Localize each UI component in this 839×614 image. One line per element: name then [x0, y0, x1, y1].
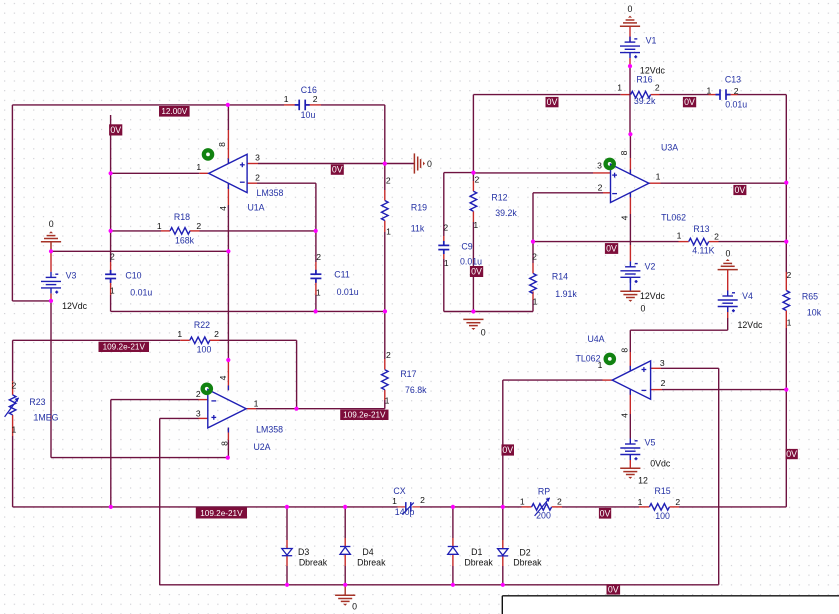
- svg-text:8: 8: [217, 142, 227, 147]
- svg-text:8: 8: [619, 348, 629, 353]
- lead U4A pin4: [629, 390, 631, 414]
- battery V5 0Vdc: [620, 439, 640, 461]
- lead U2A pin1 output: [246, 408, 256, 410]
- svg-text:1: 1: [177, 329, 182, 339]
- lead D1 bottom: [452, 555, 454, 567]
- svg-text:39.2k: 39.2k: [495, 208, 517, 218]
- svg-text:0.01u: 0.01u: [725, 99, 747, 109]
- svg-text:R23: R23: [29, 397, 45, 407]
- wire R18 pin1 side: [111, 230, 161, 232]
- svg-text:R15: R15: [655, 486, 671, 496]
- junction D3 bottom: [285, 583, 289, 587]
- junction U1A pin4 ground rail: [226, 249, 230, 253]
- svg-text:0.01u: 0.01u: [460, 257, 482, 267]
- wire y507 long rail west part: [13, 506, 398, 508]
- svg-text:0V: 0V: [606, 244, 617, 254]
- wire y241 0V rail: [533, 241, 679, 243]
- junction V3 bottom: [49, 299, 53, 303]
- wire C9 vertical: [443, 173, 445, 236]
- svg-text:3: 3: [196, 408, 201, 418]
- voltage label 0V bottom rail: [607, 584, 621, 594]
- lead V2 top: [629, 245, 631, 261]
- lead U4A pin2: [650, 389, 662, 391]
- junction D1 bottom: [451, 583, 455, 587]
- wire node to R19: [384, 164, 386, 190]
- svg-text:1: 1: [385, 396, 390, 406]
- svg-text:2: 2: [443, 223, 448, 233]
- wire U1A pin4 to U2A pin4: [227, 205, 229, 360]
- wire U1A pin2 right: [257, 182, 316, 184]
- battery V2 12Vdc: [620, 261, 640, 283]
- lead R16 pin2: [651, 94, 660, 96]
- voltage label 12.00V: [159, 106, 190, 117]
- svg-text:200: 200: [536, 511, 551, 521]
- svg-text:R65: R65: [802, 291, 818, 301]
- svg-text:2: 2: [661, 378, 666, 388]
- svg-text:CX: CX: [393, 486, 405, 496]
- wire D2 to bottom rail: [502, 566, 504, 585]
- lead U2A pin8: [227, 428, 229, 441]
- voltage label 0V U4A output net: [502, 444, 515, 455]
- resistor R17 76.8k: [382, 370, 389, 390]
- lead V1 bottom: [629, 58, 631, 66]
- wire R22 pin2 right: [220, 339, 297, 341]
- lead V2 bottom to ground: [629, 277, 631, 291]
- wire down to C11: [315, 183, 317, 262]
- svg-text:0V: 0V: [684, 97, 695, 107]
- junction D2 / U4A output: [501, 505, 505, 509]
- svg-text:U3A: U3A: [661, 142, 678, 152]
- svg-text:1: 1: [444, 258, 449, 268]
- svg-text:1: 1: [617, 82, 622, 92]
- lead D3 cathode: [286, 556, 288, 566]
- wire U3A output to right column: [661, 182, 787, 184]
- wire to D2: [502, 507, 504, 540]
- svg-text:1: 1: [196, 162, 201, 172]
- lead D4 bottom: [344, 554, 346, 566]
- wire output net down: [502, 380, 504, 507]
- svg-text:R17: R17: [400, 369, 416, 379]
- voltage label 0V top rail east: [683, 97, 696, 107]
- lead C13 pin1: [709, 94, 721, 96]
- svg-text:4: 4: [619, 413, 629, 418]
- overlay window corner bottom-right: [502, 596, 839, 614]
- svg-text:V1: V1: [646, 36, 657, 46]
- svg-text:2: 2: [110, 251, 115, 261]
- lead D2 cathode: [502, 556, 504, 566]
- resistor R65 10k: [783, 291, 790, 311]
- marker at U2A pin2: [203, 385, 211, 393]
- lead R18 pin1: [161, 230, 170, 232]
- lead U4A pin3: [650, 367, 661, 369]
- svg-text:Dbreak: Dbreak: [464, 557, 493, 567]
- svg-text:0V: 0V: [547, 97, 558, 107]
- marker at U3A pin3: [606, 160, 614, 168]
- svg-text:2: 2: [386, 350, 391, 360]
- wire R16 to C13: [660, 94, 709, 96]
- svg-text:1: 1: [677, 230, 682, 240]
- junction ground node y311: [471, 309, 475, 313]
- svg-text:1: 1: [12, 424, 17, 434]
- voltage label 109.2e-21V U2A out: [340, 410, 388, 420]
- svg-text:LM358: LM358: [256, 424, 283, 434]
- capacitor C16 10u: [295, 100, 310, 111]
- wire net-0V vertical at x110: [110, 115, 112, 262]
- svg-text:2: 2: [386, 175, 391, 185]
- svg-text:V4: V4: [742, 291, 753, 301]
- lead R19 pin1: [384, 221, 386, 233]
- lead D3 anode: [286, 540, 288, 549]
- wire U4A pin2 to right column: [662, 389, 786, 391]
- potentiometer RP 200: [532, 504, 552, 511]
- wire y457 to U2A pin8: [51, 457, 228, 459]
- voltage label 0V U1A pin3: [331, 164, 344, 174]
- lead C10 pin1: [110, 278, 112, 295]
- wire right column lower: [785, 328, 787, 507]
- potentiometer R23 1MEG: [9, 395, 16, 415]
- svg-text:R18: R18: [174, 212, 190, 222]
- svg-text:109.2e-21V: 109.2e-21V: [343, 411, 386, 420]
- resistor R22 100: [190, 337, 210, 344]
- svg-text:2: 2: [734, 86, 739, 96]
- wire ground rail y251: [51, 250, 228, 252]
- wire R23 pin1 down: [12, 436, 14, 507]
- svg-text:C9: C9: [461, 241, 472, 251]
- svg-text:U1A: U1A: [247, 203, 264, 213]
- lead R17 pin1: [384, 390, 386, 400]
- lead U1A pin4: [227, 183, 229, 205]
- U3A pin8 stub: [629, 170, 631, 175]
- svg-text:1MEG: 1MEG: [34, 412, 59, 422]
- wire pin2 net down: [110, 400, 112, 507]
- junction U3A pin8: [628, 132, 632, 136]
- svg-text:2: 2: [316, 252, 321, 262]
- svg-text:C13: C13: [725, 75, 741, 85]
- lead C16 pin2: [305, 104, 321, 106]
- svg-text:2: 2: [532, 252, 537, 262]
- junction U3A output right column: [784, 181, 788, 185]
- wire C9 branch top: [444, 172, 474, 174]
- lead U1A pin2: [247, 182, 257, 184]
- op-amp U2A LM358 triangle: [208, 390, 246, 428]
- lead V4 top from ground: [727, 270, 729, 291]
- svg-text:1: 1: [254, 398, 259, 408]
- svg-text:4.11K: 4.11K: [692, 245, 714, 255]
- ground V3 lead: [50, 242, 52, 252]
- capacitor C9 0.01u: [438, 241, 449, 254]
- wire D3 riser: [286, 507, 288, 540]
- svg-text:12Vdc: 12Vdc: [738, 320, 764, 330]
- lead C11 pin2: [315, 262, 317, 274]
- svg-text:0: 0: [725, 249, 730, 259]
- junction D3 top: [285, 505, 289, 509]
- svg-text:R16: R16: [636, 75, 652, 85]
- svg-text:1: 1: [284, 94, 289, 104]
- svg-text:0.01u: 0.01u: [130, 287, 152, 297]
- svg-text:0.01u: 0.01u: [337, 287, 359, 297]
- wire R14 pin1 down: [532, 300, 534, 312]
- wire top-left rail to C16 pin1: [12, 104, 284, 106]
- wire R13 pin2 to right column: [719, 241, 787, 243]
- lead R22 pin2: [209, 339, 219, 341]
- junction R14 top 0V rail: [531, 240, 535, 244]
- svg-text:1: 1: [316, 287, 321, 297]
- lead R23 pin1: [12, 415, 14, 436]
- svg-text:1: 1: [787, 318, 792, 328]
- svg-text:12Vdc: 12Vdc: [640, 66, 666, 76]
- svg-text:100: 100: [655, 511, 670, 521]
- U4A pin4 stub: [629, 390, 631, 395]
- diode D1 Dbreak: [448, 547, 458, 555]
- diode D4 Dbreak: [340, 547, 350, 555]
- junction U1A pin3 node: [383, 162, 387, 166]
- voltage label 0V top rail west: [546, 97, 559, 107]
- op-amp U1A LM358 triangle: [209, 154, 247, 192]
- junction R18 net: [109, 229, 113, 233]
- voltage label 109.2e-21V y340: [99, 342, 150, 352]
- svg-text:1: 1: [392, 496, 397, 506]
- ground 0 bottom rail: [335, 595, 355, 606]
- lead R22 pin1: [180, 339, 190, 341]
- voltage label 0V R12 net: [470, 266, 483, 277]
- svg-text:8: 8: [619, 150, 629, 155]
- wire R17 pin1 to U2A out net: [384, 400, 386, 409]
- svg-text:2: 2: [714, 231, 719, 241]
- lead R65 pin2: [785, 272, 787, 291]
- wire C10 pin1 down: [110, 295, 112, 311]
- junction U2A output: [294, 407, 298, 411]
- U2A pin8 stub: [227, 428, 229, 433]
- svg-text:2: 2: [420, 495, 425, 505]
- lead R18 pin2: [190, 230, 200, 232]
- junction D4 bottom / ground: [343, 583, 347, 587]
- capacitor C11 0.01u: [310, 270, 321, 283]
- svg-text:1: 1: [520, 497, 525, 507]
- junction U1A pin8 / top rail: [226, 103, 230, 107]
- lead RP pin2: [552, 506, 562, 508]
- battery V4 12Vdc: [718, 291, 738, 313]
- svg-text:0: 0: [481, 327, 486, 337]
- svg-text:V3: V3: [66, 271, 77, 281]
- U3A pin4 stub: [629, 192, 631, 197]
- junction D1 top: [451, 505, 455, 509]
- capacitor CX 140p: [402, 502, 414, 514]
- wire D1 to bottom rail: [452, 566, 454, 585]
- svg-text:0: 0: [352, 601, 357, 611]
- wire C11 pin1 down: [315, 295, 317, 311]
- lead U2A pin4: [227, 360, 229, 390]
- svg-text:2: 2: [557, 497, 562, 507]
- lead U3A pin3: [593, 172, 611, 174]
- lead C11 pin1: [315, 278, 317, 295]
- svg-text:10u: 10u: [301, 110, 316, 120]
- svg-text:2: 2: [675, 497, 680, 507]
- resistor R14 1.91k: [530, 273, 537, 293]
- lead R17 pin2: [384, 359, 386, 370]
- svg-text:168k: 168k: [175, 235, 195, 245]
- U1A pin4 stub: [227, 183, 229, 189]
- ground 0 above V1: [620, 16, 640, 27]
- lead RP pin1: [522, 506, 532, 508]
- svg-text:V2: V2: [645, 262, 656, 272]
- voltage label 0V net x110: [109, 124, 122, 135]
- svg-text:1: 1: [598, 360, 603, 370]
- svg-text:2: 2: [655, 82, 660, 92]
- ground bottom lead: [344, 585, 346, 595]
- lead R15 pin1: [639, 506, 649, 508]
- lead D4 top: [344, 538, 346, 547]
- lead C10 pin2: [110, 262, 112, 274]
- svg-text:Dbreak: Dbreak: [299, 557, 328, 567]
- svg-text:0V: 0V: [735, 185, 746, 195]
- lead V4 bottom: [727, 307, 729, 318]
- lead V3 plus top: [50, 251, 52, 272]
- ground 0 above V4: [718, 259, 738, 270]
- wire pin3 net down to bottom rail: [159, 418, 161, 585]
- wire U3A pin4 down: [629, 214, 631, 245]
- svg-text:Dbreak: Dbreak: [357, 557, 386, 567]
- lead C9 pin1: [443, 250, 445, 259]
- wire y311 rail: [111, 310, 385, 312]
- svg-text:C10: C10: [125, 271, 141, 281]
- svg-text:R13: R13: [693, 224, 709, 234]
- wire V3 bottom down long: [50, 301, 52, 458]
- wire U4A pin3 right: [661, 367, 719, 369]
- svg-text:1: 1: [473, 220, 478, 230]
- svg-text:4: 4: [218, 375, 228, 380]
- svg-text:2: 2: [598, 182, 603, 192]
- svg-text:8: 8: [219, 441, 229, 446]
- junction C11 bottom: [314, 309, 318, 313]
- svg-text:Dbreak: Dbreak: [513, 557, 542, 567]
- lead V3 minus bottom: [50, 293, 52, 301]
- svg-text:109.2e-21V: 109.2e-21V: [103, 343, 146, 352]
- svg-text:0: 0: [628, 4, 633, 14]
- wire RP to R15: [562, 506, 639, 508]
- junction R19 bottom: [383, 309, 387, 313]
- capacitor C13 0.01u: [716, 89, 731, 100]
- svg-text:2: 2: [475, 175, 480, 185]
- svg-text:11k: 11k: [411, 224, 425, 234]
- wire V4 down: [727, 318, 729, 330]
- wire U2A pin3 left: [160, 417, 199, 419]
- junction R18/C11 net: [314, 229, 318, 233]
- voltage label 109.2e-21V y507: [196, 508, 247, 519]
- wire U4A pin4 to V5: [629, 414, 631, 439]
- lead R12 pin2: [472, 181, 474, 191]
- junction V1 bottom: [628, 64, 632, 68]
- voltage label 0V y241 rail: [605, 243, 618, 254]
- lead C13 pin2: [726, 94, 738, 96]
- lead R14 pin2: [532, 263, 534, 273]
- junction U4A pin2 right column: [784, 388, 788, 392]
- svg-text:C11: C11: [334, 270, 350, 280]
- svg-text:2: 2: [12, 380, 17, 390]
- lead U3A pin4: [629, 192, 631, 214]
- resistor R13 4.11K: [689, 238, 709, 245]
- svg-text:V5: V5: [645, 438, 656, 448]
- capacitor C10 0.01u: [105, 270, 116, 283]
- svg-text:12Vdc: 12Vdc: [62, 301, 88, 311]
- lead U3A pin8: [629, 158, 631, 175]
- svg-text:2: 2: [214, 329, 219, 339]
- lead R15 pin2: [669, 506, 679, 508]
- svg-text:1: 1: [656, 172, 661, 182]
- lead D1 top: [452, 538, 454, 547]
- U4A pin8 stub: [629, 366, 631, 371]
- lead C16 pin1: [284, 104, 299, 106]
- junction D4 top: [343, 505, 347, 509]
- svg-text:0V: 0V: [600, 508, 611, 518]
- svg-text:2: 2: [787, 270, 792, 280]
- svg-text:2: 2: [196, 389, 201, 399]
- lead R65 pin1: [785, 311, 787, 329]
- wire C16 pin2 to corner: [321, 104, 385, 106]
- svg-text:100: 100: [197, 345, 212, 355]
- svg-text:12: 12: [638, 476, 648, 486]
- wire y311 right rail: [444, 311, 533, 313]
- junction U2A pin8 wire: [226, 456, 230, 460]
- lead U3A pin1 output: [649, 182, 661, 184]
- wire bottom rail y585: [160, 584, 719, 586]
- ground 0 at U1A pin3 net: [414, 153, 425, 173]
- wire C9 pin1 down: [443, 259, 445, 312]
- wire U1A pin8 from top rail: [227, 105, 229, 130]
- svg-text:R14: R14: [552, 271, 568, 281]
- resistor R16 39.2k: [631, 91, 651, 98]
- svg-text:LM358: LM358: [257, 188, 284, 198]
- voltage label 0V U3A output: [733, 185, 746, 195]
- junction pin2 net on y507 rail: [109, 505, 113, 509]
- wire C13 pin2 to corner: [738, 94, 787, 96]
- wire U3A pin3 rail: [473, 172, 593, 174]
- svg-text:D3: D3: [298, 547, 309, 557]
- wire U1A pin3 to ground: [258, 163, 414, 165]
- lead CX pin2: [412, 506, 420, 508]
- svg-text:R12: R12: [491, 193, 507, 203]
- junction V3 ground: [49, 249, 53, 253]
- svg-text:0V: 0V: [608, 584, 619, 594]
- wire R19 pin1 down: [384, 232, 386, 311]
- svg-text:0V: 0V: [471, 267, 482, 277]
- svg-text:1: 1: [386, 227, 391, 237]
- svg-text:R19: R19: [411, 203, 427, 213]
- battery V1 12Vdc: [620, 37, 640, 59]
- lead R12 pin1: [472, 211, 474, 222]
- wire U2A pin2 left: [111, 399, 199, 401]
- svg-text:2: 2: [313, 94, 318, 104]
- wire U1A output to node A: [111, 172, 200, 174]
- wire D4 to bottom rail: [344, 566, 346, 585]
- lead U3A pin2: [603, 192, 611, 194]
- svg-text:0V: 0V: [786, 449, 797, 459]
- svg-text:0: 0: [49, 219, 54, 229]
- wire to R17: [384, 311, 386, 359]
- svg-text:1: 1: [157, 221, 162, 231]
- lead U2A pin2: [199, 399, 209, 401]
- svg-text:U4A: U4A: [587, 334, 604, 344]
- lead U1A pin8: [227, 130, 229, 164]
- svg-text:0: 0: [641, 304, 646, 314]
- svg-text:RP: RP: [538, 486, 550, 496]
- lead U1A pin1 output: [199, 172, 209, 174]
- junction U2A pin4 wire: [226, 358, 230, 362]
- marker at U1A: [204, 150, 212, 158]
- wire U4A pin8 riser: [629, 330, 631, 352]
- lead R14 pin1: [532, 291, 534, 300]
- junction node output U1A: [109, 171, 113, 175]
- svg-text:TL062: TL062: [661, 212, 686, 222]
